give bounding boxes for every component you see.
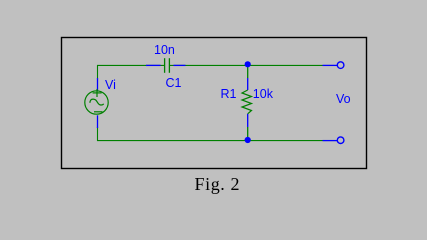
source Vi plus sign xyxy=(93,89,102,97)
wire from C1 right to node A and toward Vo+ terminal xyxy=(170,64,323,66)
resistor R1 zigzag xyxy=(242,90,252,114)
capacitor C1 plate right xyxy=(168,58,170,73)
source Vi minus bar xyxy=(94,111,103,113)
caption Fig. 2 xyxy=(195,175,241,193)
source Vi lead top xyxy=(97,78,99,91)
resistor R1 lead bottom xyxy=(247,114,249,127)
label Vo xyxy=(336,93,351,106)
wire from Vi top to C1 left xyxy=(98,65,165,78)
node B junction dot bottom xyxy=(245,137,251,143)
terminal Vo- lead xyxy=(323,140,338,142)
designator label C1 xyxy=(166,77,182,90)
value label 10n xyxy=(154,44,175,57)
label Vi xyxy=(105,79,116,92)
node A junction dot top xyxy=(245,61,251,67)
designator label R1 xyxy=(221,88,237,101)
source Vi circle xyxy=(85,91,108,114)
wire R1 bottom branch xyxy=(247,127,249,141)
resistor R1 lead top xyxy=(247,78,249,90)
source Vi sine wave xyxy=(90,99,104,105)
capacitor C1 lead right xyxy=(174,64,186,66)
wire R1 top branch xyxy=(247,65,249,78)
source Vi lead bottom xyxy=(97,115,99,128)
terminal Vo+ circle xyxy=(337,62,344,69)
wire bottom rail from Vi bottom to Vo- terminal xyxy=(98,127,323,141)
terminal Vo+ lead xyxy=(323,64,338,66)
terminal Vo- circle xyxy=(337,137,344,144)
value label 10k xyxy=(253,88,273,101)
capacitor C1 plate left xyxy=(164,58,166,73)
capacitor C1 lead left xyxy=(146,64,161,66)
